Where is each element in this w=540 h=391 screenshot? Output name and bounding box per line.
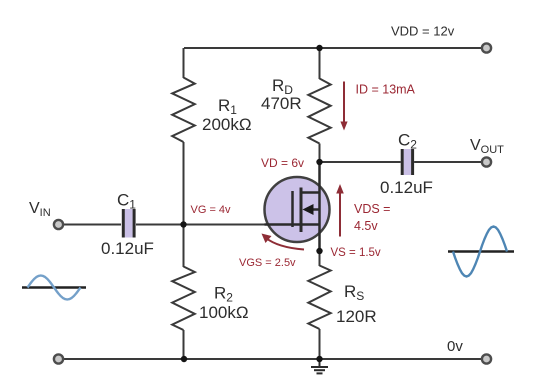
svg-text:VD = 6v: VD = 6v <box>261 156 304 170</box>
svg-text:0.12uF: 0.12uF <box>380 178 433 197</box>
wire gate line from C1 toward MOSFET <box>136 224 266 226</box>
terminal VOUT <box>482 157 491 166</box>
svg-text:100kΩ: 100kΩ <box>199 303 249 322</box>
node VDD rail junction <box>316 45 322 51</box>
ground <box>311 359 328 373</box>
svg-text:0.12uF: 0.12uF <box>101 239 154 258</box>
resistor RS <box>308 266 330 330</box>
node S (source, VS) junction <box>316 248 322 254</box>
output sine wave <box>448 250 514 253</box>
svg-text:0v: 0v <box>447 338 463 355</box>
body stub <box>308 208 320 211</box>
svg-text:VG = 4v: VG = 4v <box>191 204 232 216</box>
channel bar <box>300 188 303 233</box>
wire output from drain node to C2 <box>320 161 401 163</box>
svg-text:ID = 13mA: ID = 13mA <box>356 83 416 97</box>
transistor Q1 (MOSFET) body circle <box>265 177 330 242</box>
svg-text:470R: 470R <box>261 94 302 113</box>
svg-text:4.5v: 4.5v <box>354 219 378 233</box>
body arrow of Q1 <box>303 204 314 215</box>
wire from C2 to VOUT terminal <box>414 161 482 163</box>
arrow VGS curved <box>266 238 304 250</box>
resistor R1 <box>172 78 195 143</box>
node G (gate) junction <box>180 221 186 227</box>
capacitor C1 <box>125 209 133 238</box>
wire input from VIN to C1 <box>64 224 122 226</box>
terminal VDD <box>482 43 491 52</box>
wire top rail VDD <box>184 47 481 49</box>
terminal ground left <box>54 354 63 363</box>
svg-text:VDS =: VDS = <box>354 202 390 216</box>
wire left branch vertical (R1/R2 column) <box>183 48 185 359</box>
terminal ground right <box>482 354 491 363</box>
svg-text:VGS = 2.5v: VGS = 2.5v <box>239 257 296 269</box>
svg-text:200kΩ: 200kΩ <box>202 115 252 134</box>
capacitor C2 <box>404 149 411 175</box>
gate bar <box>291 191 294 227</box>
transistor Q1 internal symbol <box>265 188 320 233</box>
input sine wave <box>22 286 86 289</box>
gate wire through circle to source stub <box>265 223 320 226</box>
resistor RD <box>308 79 330 144</box>
svg-text:120R: 120R <box>336 307 377 326</box>
arrow VDS <box>339 192 341 237</box>
svg-text:VS = 1.5v: VS = 1.5v <box>331 247 381 259</box>
wire bottom rail 0v <box>63 358 482 360</box>
wire through Q1 drain-source <box>318 162 321 251</box>
terminal VIN <box>54 220 63 229</box>
node RS to 0v rail junction <box>316 356 322 362</box>
node R2 to 0v rail junction <box>181 356 187 362</box>
arrow ID current <box>343 82 345 124</box>
resistor R2 <box>172 267 195 331</box>
drain stub <box>301 191 320 194</box>
wire drain/source branch vertical <box>319 48 321 359</box>
node D (drain, VD) junction <box>316 159 322 165</box>
svg-text:VDD = 12v: VDD = 12v <box>391 24 455 39</box>
